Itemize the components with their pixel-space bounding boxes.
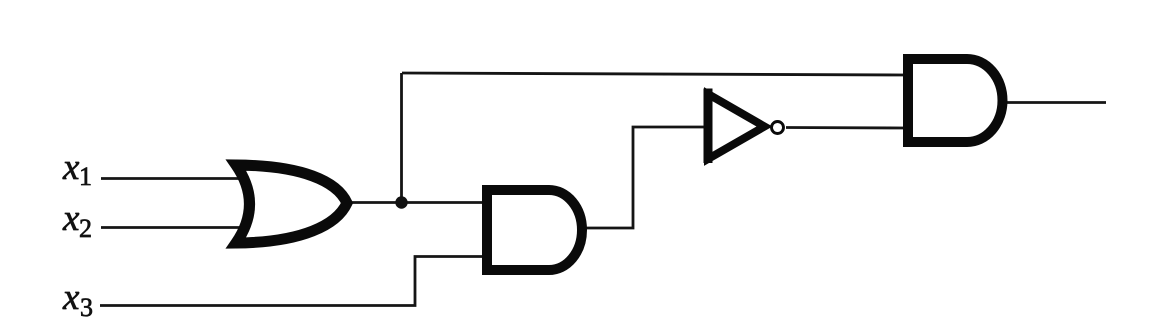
and-gate U1 (middle) [487, 190, 582, 270]
wire final output [1004, 101, 1106, 104]
svg-text:x: x [62, 277, 80, 318]
label x1 [62, 147, 92, 191]
wire node to AND1 top input [402, 201, 484, 204]
svg-text:1: 1 [79, 162, 92, 191]
label x3 [62, 277, 93, 322]
svg-text:2: 2 [79, 214, 92, 243]
or-gate G1 [236, 165, 347, 243]
wire top horizontal to AND2 [402, 73, 906, 75]
wire x3 input [100, 257, 484, 306]
and-gate U2 (output) [908, 59, 1002, 142]
svg-text:3: 3 [80, 293, 93, 322]
wire node vertical up [400, 73, 403, 203]
wire x1 input [101, 177, 252, 180]
wire x2 input [101, 226, 252, 229]
junction node dot [395, 196, 407, 208]
wire OR output to node [347, 201, 402, 204]
svg-text:x: x [62, 147, 80, 188]
label x2 [62, 198, 92, 243]
inverter input edge [704, 89, 713, 164]
inverter (NOT gate) [708, 94, 765, 159]
wire AND1 output to inverter [584, 127, 705, 228]
svg-text:x: x [62, 198, 80, 239]
wire inverter output to AND2 bottom input [786, 126, 906, 129]
inverter bubble [772, 122, 784, 134]
